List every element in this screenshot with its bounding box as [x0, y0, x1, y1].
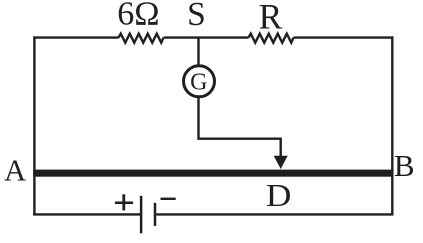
svg-text:6Ω: 6Ω	[117, 0, 159, 33]
svg-text:B: B	[394, 148, 415, 183]
svg-text:A: A	[4, 153, 26, 187]
svg-text:D: D	[266, 178, 292, 213]
svg-text:G: G	[190, 69, 207, 95]
svg-text:R: R	[259, 0, 283, 37]
svg-text:S: S	[187, 0, 206, 33]
